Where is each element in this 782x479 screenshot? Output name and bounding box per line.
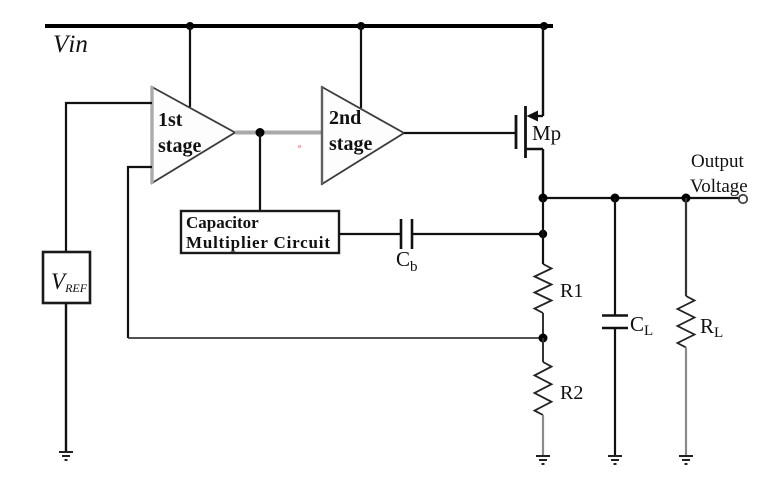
resistor R1 [535,264,552,313]
wire: CL down to ground [614,328,616,455]
wire: Vin supply rail [45,24,553,28]
wire: 1st stage plus input from VREF [66,103,152,252]
wire: 2nd stage output to Mp gate [404,132,516,134]
wire: 1st stage output (gray) [235,131,322,135]
wire: R2 down to ground [542,415,544,455]
svg-text:1st: 1st [158,109,183,131]
terminal: output voltage [739,195,747,203]
node: Cb junction [539,230,547,238]
node: output at RL [682,194,691,203]
wire: rail down to 2nd stage [360,26,362,108]
label Output Voltage [690,151,748,197]
transistor Mp [516,106,543,158]
svg-text:Capacitor: Capacitor [186,213,259,232]
wire: output node down to R1 [542,198,544,264]
svg-text:R2: R2 [560,382,583,404]
ground at R2 [536,456,550,464]
wire: Mp drain down to output node [542,149,544,198]
wire: output node down to CL [614,198,616,315]
wire: R1 to feedback node [542,313,544,338]
svg-text:2nd: 2nd [329,107,361,129]
node: 1st stage output junction [256,128,265,137]
wire: VREF down to ground [65,303,67,451]
artifact: small red mark [298,145,301,148]
ground at RL [679,456,693,464]
wire: rail down to Mp source [542,26,544,116]
svg-text:Cb: Cb [396,247,418,275]
svg-text:stage: stage [158,135,201,157]
resistor RL [678,296,695,348]
wire: Cb to drain branch [412,233,543,235]
wire: feedback node down to R2 [542,338,544,362]
wire: multiplier box to Cb [339,233,400,235]
node: rail junction above 1st stage [186,22,194,30]
voltage source VREF [43,252,90,303]
svg-text:CL: CL [630,312,653,339]
svg-text:Voltage: Voltage [690,176,748,197]
node: rail junction above 2nd stage [357,22,365,30]
capacitor Cb [401,219,412,249]
svg-text:Mp: Mp [532,121,561,145]
node: output at drain [539,194,548,203]
svg-text:Vin: Vin [53,31,88,58]
svg-text:stage: stage [329,133,372,155]
svg-text:Multiplier Circuit: Multiplier Circuit [186,233,330,252]
resistor R2 [535,362,552,415]
svg-text:Output: Output [691,151,745,172]
node: feedback junction [539,334,548,343]
wire: rail down to 1st stage [189,26,191,107]
node: rail junction above Mp [540,22,548,30]
svg-text:R1: R1 [560,280,583,302]
wire: RL down to ground [685,348,687,456]
wire: 1st stage minus input from feedback [128,167,152,338]
wire: output node down to capacitor multiplier [259,133,261,212]
wire: output node down to RL [685,198,687,296]
node: output at CL [611,194,620,203]
op-amp U2 2nd stage [322,86,404,185]
op-amp U1 1st stage [152,86,235,184]
capacitor CL [602,316,628,329]
ground at CL [608,456,622,464]
ground at VREF [59,452,73,460]
svg-text:RL: RL [700,314,723,341]
block: Capacitor Multiplier Circuit [181,211,339,253]
wire: output horizontal line [543,197,740,199]
wire: feedback horizontal run [128,337,543,339]
